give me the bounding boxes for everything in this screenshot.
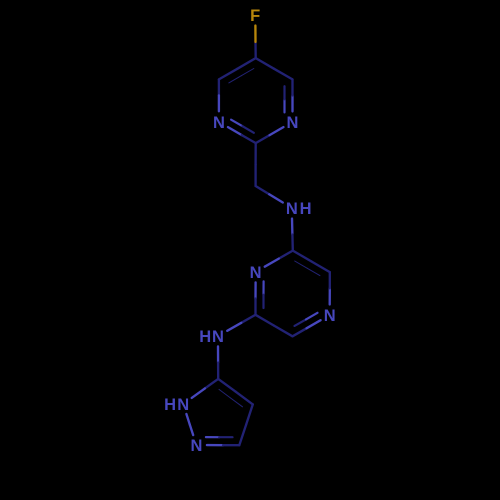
bond N3=C2 pyrimidine double [228, 127, 242, 135]
bond C5=N4 pyrazine double [293, 328, 307, 336]
svg-text:H: H [300, 200, 312, 218]
bond C2-N1 pyrimidine [256, 135, 270, 143]
svg-text:N: N [213, 114, 225, 132]
bond C2-N1 pyrazine [279, 251, 293, 259]
bond C6-C5 pyrimidine [274, 69, 292, 80]
svg-text:N: N [286, 200, 298, 218]
bond N1=C6 pyrimidine double [291, 95, 293, 111]
bond C6-NH to aminopyrazole linker [241, 315, 255, 323]
bond N1-N2 pyrazole [186, 414, 189, 425]
svg-text:N: N [324, 307, 336, 325]
bond C4-N3 pyrimidine [218, 79, 220, 95]
svg-text:F: F [250, 7, 260, 25]
bond C5-N1 pyrazole [205, 379, 218, 389]
bond NH-C5 to pyrazole [217, 346, 219, 362]
bond N2=C3 pyrazole double [207, 444, 223, 446]
bond CH2-NH amine linker [256, 186, 270, 194]
svg-text:H: H [199, 328, 211, 346]
bond C5-F (to fluorine) [254, 42, 257, 58]
svg-text:N: N [212, 328, 224, 346]
svg-text:N: N [177, 396, 189, 414]
bond C2-CH2 linker [254, 143, 256, 165]
svg-text:H: H [164, 396, 176, 414]
bond NH-C2 to pyrazine [291, 219, 294, 235]
svg-text:N: N [250, 264, 262, 282]
bond C3=C2 pyrazine double [311, 261, 330, 272]
bond C4=C5 pyrazole double [236, 392, 253, 405]
svg-text:N: N [190, 437, 202, 455]
svg-text:N: N [287, 114, 299, 132]
bond C6-C5 pyrazine [256, 315, 275, 326]
bond N1=C6 pyrazine double [254, 282, 256, 298]
bond N4-C3 pyrazine [329, 288, 331, 304]
bond C5=C4 pyrimidine double [237, 58, 255, 69]
bond C3-C4 pyrazole [239, 425, 246, 445]
